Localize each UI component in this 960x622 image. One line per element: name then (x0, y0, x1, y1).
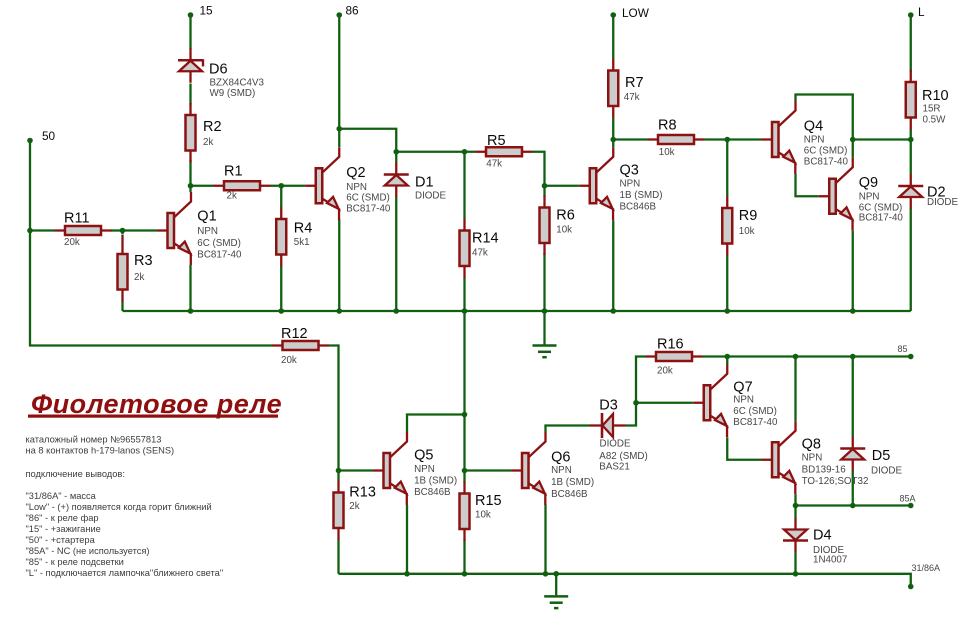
wire 85 line (727, 355, 911, 357)
svg-text:DIODE: DIODE (927, 197, 958, 208)
transistor Q5 (373, 432, 457, 505)
junction rail Q1e (188, 308, 194, 314)
junction R10/D2 (908, 137, 914, 143)
svg-text:"Low" - (+) появляется когда г: "Low" - (+) появляется когда горит ближн… (26, 502, 212, 512)
wire R10 bottom to node (910, 129, 912, 140)
net flag 15 (188, 4, 213, 18)
wire node row to D2 (853, 138, 911, 140)
transistor Q8 (762, 421, 869, 494)
junction rail R4 (278, 308, 284, 314)
net flag 50 (27, 129, 55, 143)
wire Q7 emitter to Q8 base (727, 438, 761, 460)
wire R14 bottom to rail (463, 278, 465, 312)
svg-text:Q9: Q9 (859, 175, 878, 191)
junction 86/Q2 collector (336, 126, 342, 132)
junction R11/R3/Q1 base (120, 228, 126, 234)
svg-text:NPN: NPN (197, 226, 218, 237)
wire node to Q6 base (465, 469, 512, 471)
svg-text:86: 86 (346, 4, 360, 18)
wire 15 to D6 (189, 15, 191, 49)
resistor R9 (722, 196, 757, 256)
svg-text:6C (SMD): 6C (SMD) (197, 238, 241, 249)
svg-text:Q8: Q8 (802, 436, 821, 452)
resistor R5 (476, 133, 533, 169)
svg-text:Q7: Q7 (733, 380, 752, 396)
wire 85A line (796, 504, 911, 506)
ground bottom (544, 574, 568, 608)
transistor Q6 (512, 432, 595, 505)
resistor R1 (214, 164, 271, 202)
svg-text:50: 50 (42, 129, 56, 143)
diode D5 (840, 437, 902, 477)
svg-text:BC846B: BC846B (620, 202, 657, 213)
transistor Q1 (157, 192, 242, 265)
svg-text:R2: R2 (203, 119, 222, 135)
wire D4 to bottom rail (794, 553, 796, 574)
wire Q2 emitter to rail (338, 220, 340, 312)
svg-text:2k: 2k (203, 137, 213, 148)
svg-text:NPN: NPN (620, 179, 641, 190)
svg-text:R11: R11 (64, 211, 90, 227)
svg-text:D5: D5 (872, 448, 891, 464)
svg-text:каталожный номер №96557813: каталожный номер №96557813 (26, 435, 162, 445)
svg-text:BC817-40: BC817-40 (197, 250, 242, 261)
svg-text:20k: 20k (657, 366, 673, 377)
wire 86 vertical (338, 15, 340, 147)
svg-text:31/86A: 31/86A (912, 563, 941, 573)
svg-text:NPN: NPN (414, 464, 435, 475)
svg-text:NPN: NPN (346, 182, 367, 193)
wire Q1 emitter to rail (189, 265, 191, 311)
svg-text:DIODE: DIODE (600, 439, 631, 450)
svg-text:47k: 47k (486, 158, 502, 169)
transistor Q4 (762, 101, 849, 174)
junction Q5 collector/mid rail (462, 412, 468, 418)
junction R1/R4/Q2 base (278, 183, 284, 189)
net flag 86 (336, 4, 359, 18)
wire node to Q9 collector (852, 140, 854, 158)
svg-text:0.5W: 0.5W (923, 115, 947, 126)
wire Q3 emitter to rail (612, 220, 614, 311)
svg-text:NPN: NPN (733, 395, 754, 406)
svg-text:Q3: Q3 (620, 163, 639, 179)
net flag LOW (610, 6, 649, 20)
svg-text:1B (SMD): 1B (SMD) (414, 476, 457, 487)
wire R16 right to node (703, 355, 728, 357)
svg-text:NPN: NPN (551, 465, 572, 476)
svg-text:Q1: Q1 (197, 209, 216, 225)
wire D1 bottom to rail (395, 197, 397, 312)
net flag 31/86A (908, 563, 940, 589)
svg-text:"85" - к реле подсветки: "85" - к реле подсветки (26, 557, 124, 567)
svg-text:1B (SMD): 1B (SMD) (620, 190, 663, 201)
svg-text:R13: R13 (349, 485, 376, 501)
net flag 85A (900, 494, 916, 509)
wire R8 right to node (705, 138, 728, 140)
transistor Q9 (819, 158, 904, 231)
wire LOW to R7 (612, 15, 614, 59)
wire 85A to D4 (794, 506, 796, 519)
svg-text:BC846B: BC846B (551, 489, 588, 500)
junction R14 top (462, 149, 468, 155)
svg-text:BC817-40: BC817-40 (804, 157, 849, 168)
resistor R3 (118, 235, 153, 302)
junction bottom rail Q5e (404, 571, 410, 577)
wire R11 left (30, 229, 55, 231)
svg-text:BC817-40: BC817-40 (733, 417, 778, 428)
resistor R8 (648, 118, 705, 159)
resistor R11 (55, 211, 112, 249)
svg-text:10k: 10k (659, 147, 675, 158)
svg-text:DIODE: DIODE (415, 191, 446, 202)
svg-text:47k: 47k (624, 92, 640, 103)
wire R4 top node down (280, 186, 282, 207)
svg-text:20k: 20k (281, 355, 297, 366)
wire R15 bottom to rail (463, 540, 465, 574)
wire Q1 collector to node (189, 186, 191, 192)
wire Q6 emitter to rail (544, 505, 546, 574)
junction 85/D5 (850, 354, 856, 360)
wire 85 down to Q8 collector (794, 357, 796, 422)
wire D1 top (395, 152, 397, 163)
junction rail Q3e (610, 308, 616, 314)
svg-text:"15" - +зажигание: "15" - +зажигание (26, 524, 101, 534)
resistor R12 (272, 326, 329, 366)
diode D1 (384, 163, 447, 202)
svg-text:D1: D1 (415, 174, 434, 190)
svg-text:"86" - к реле фар: "86" - к реле фар (26, 513, 99, 523)
svg-text:R12: R12 (281, 326, 308, 342)
junction D1 top (393, 149, 399, 155)
wire R9 bottom to rail (726, 255, 728, 311)
wire R4 bottom to rail (280, 266, 282, 311)
wire Q3 collector (612, 140, 614, 148)
svg-text:10k: 10k (556, 225, 572, 236)
net flag 85 (898, 344, 914, 359)
wire bottom rail 31/86A (339, 574, 911, 584)
transistor Q3 (579, 147, 662, 220)
wire ground rail top (123, 310, 911, 312)
resistor R13 (334, 481, 376, 541)
svg-text:20k: 20k (64, 237, 80, 248)
wire R11 right to node (111, 229, 123, 231)
svg-text:"31/86A" - масса: "31/86A" - масса (26, 491, 97, 501)
resistor R6 (540, 196, 575, 256)
wire Q5 emitter to rail (406, 505, 408, 574)
junction rail Q2e (336, 308, 342, 314)
svg-text:R6: R6 (556, 208, 575, 224)
wire R2 to node R1 (189, 160, 191, 186)
svg-text:2k: 2k (349, 501, 359, 512)
svg-text:R14: R14 (472, 231, 499, 247)
svg-text:R15: R15 (475, 493, 502, 509)
svg-text:R4: R4 (294, 221, 313, 237)
wire node to Q4 base (727, 138, 761, 140)
wire node to Q5 base (339, 469, 374, 471)
wire node to R6 top (543, 186, 545, 197)
diode D6 (zener) (178, 48, 265, 99)
transistor Q7 (693, 364, 778, 437)
junction 85A/D5 (850, 503, 856, 509)
diode D4 (783, 518, 847, 566)
junction 85/Q7 collector/R16 (724, 354, 730, 360)
transistor Q2 (305, 147, 391, 220)
wire L to R10 (910, 15, 912, 72)
svg-text:DIODE: DIODE (871, 466, 902, 477)
svg-text:подключение выводов:: подключение выводов: (26, 469, 125, 479)
junction rail R6 (542, 308, 548, 314)
wire R14 top (463, 152, 465, 219)
svg-text:BZX84C4V3: BZX84C4V3 (210, 78, 265, 89)
svg-text:D4: D4 (813, 528, 832, 544)
wire mid vertical rail to Q6 base node (463, 311, 465, 483)
resistor R2 (186, 103, 222, 163)
svg-text:R3: R3 (134, 253, 153, 269)
junction rail R14 (462, 308, 468, 314)
junction rail D1 (393, 308, 399, 314)
title (28, 389, 282, 419)
wire R1 right to Q2 base node (271, 185, 306, 187)
wire R3 bottom to rail (121, 301, 123, 312)
junction bottom rail Q6e (543, 571, 549, 577)
wire 86 branch to D1 top (339, 129, 396, 152)
wire node to R1 left (191, 185, 214, 187)
svg-text:NPN: NPN (804, 134, 825, 145)
svg-text:Q6: Q6 (551, 449, 570, 465)
resistor R10 (906, 70, 949, 130)
svg-text:2k: 2k (134, 272, 144, 283)
wire node down to R9 (726, 140, 728, 197)
junction rail R9 (724, 308, 730, 314)
wire Q4 collector bracket (796, 95, 853, 140)
notes text block (26, 435, 224, 579)
svg-text:5k1: 5k1 (294, 237, 310, 248)
wire Q9 emitter to rail (852, 231, 854, 311)
wire R6 bottom to rail (543, 253, 545, 311)
wire D6 to R2 (189, 84, 191, 105)
junction R8/R9/Q4 base (724, 137, 730, 143)
svg-text:6C (SMD): 6C (SMD) (346, 193, 390, 204)
wire R7 bottom to node (612, 118, 614, 140)
svg-text:R16: R16 (657, 337, 684, 353)
svg-text:"L" - подключается лампочка"бл: "L" - подключается лампочка"ближнего све… (26, 568, 224, 578)
svg-text:R1: R1 (224, 164, 243, 180)
wire D2 bottom to rail (910, 208, 912, 311)
svg-text:"50" - +стартера: "50" - +стартера (26, 535, 96, 545)
svg-text:W9 (SMD): W9 (SMD) (210, 88, 256, 99)
wire Q7 collector (726, 357, 728, 365)
svg-text:R9: R9 (739, 208, 758, 224)
resistor R15 (460, 482, 502, 542)
svg-text:TO-126;SOT32: TO-126;SOT32 (802, 476, 869, 487)
wire 85 down to D5 (852, 357, 854, 437)
svg-text:NPN: NPN (859, 192, 880, 203)
svg-text:15R: 15R (923, 104, 941, 115)
svg-text:2k: 2k (227, 191, 237, 202)
svg-text:10k: 10k (739, 226, 755, 237)
junction R12/R13/Q5 base (336, 468, 342, 474)
svg-text:L: L (918, 5, 925, 19)
net flag L (908, 5, 925, 19)
wire 50 net down and to R12 (30, 141, 272, 346)
svg-text:D3: D3 (599, 398, 618, 414)
wire R13 bottom to rail (337, 540, 339, 574)
junction Q4 collector/Q9 collector (850, 137, 856, 143)
junction 85/Q8 collector (793, 354, 799, 360)
resistor R4 (276, 207, 312, 267)
resistor R14 (460, 219, 499, 279)
svg-text:LOW: LOW (622, 6, 650, 20)
wire Q3 base node to Q3 (545, 185, 580, 187)
diode D2 (898, 174, 958, 209)
svg-text:BC817-40: BC817-40 (346, 203, 391, 214)
svg-text:Q4: Q4 (804, 119, 823, 135)
wire node to R13 top (337, 471, 339, 481)
wire row to R5 left (396, 151, 475, 153)
svg-text:85: 85 (898, 344, 908, 354)
wire node to R3 top (121, 231, 123, 235)
svg-text:47k: 47k (472, 248, 488, 259)
junction rail Q9e (850, 308, 856, 314)
junction mid rail/Q6 base/R15 (462, 468, 468, 474)
junction bottom rail R15 (462, 571, 468, 577)
svg-text:D6: D6 (209, 62, 228, 78)
resistor R7 (608, 59, 643, 119)
wire Q4 emitter to Q9 base (796, 174, 819, 196)
svg-text:"85A" - NC (не используется): "85A" - NC (не используется) (26, 546, 150, 556)
wire R5 right to Q3 base corner (533, 152, 545, 186)
svg-text:R8: R8 (658, 118, 677, 134)
svg-text:85A: 85A (900, 494, 916, 504)
svg-text:1N4007: 1N4007 (813, 555, 847, 566)
junction 50/R11 (27, 228, 33, 234)
svg-text:6C (SMD): 6C (SMD) (733, 406, 777, 417)
svg-text:1B (SMD): 1B (SMD) (551, 477, 594, 488)
resistor R16 (646, 337, 703, 377)
svg-text:6C (SMD): 6C (SMD) (804, 146, 848, 157)
junction R7/R8 (610, 137, 616, 143)
ground top (533, 311, 557, 357)
wire node to Q7 base (636, 402, 693, 404)
wire Q5 collector up and right (407, 415, 465, 433)
svg-text:A82 (SMD): A82 (SMD) (599, 451, 647, 462)
svg-text:BAS21: BAS21 (599, 462, 630, 473)
svg-text:R7: R7 (625, 75, 644, 91)
diode D3 (590, 398, 648, 473)
svg-text:Q5: Q5 (414, 448, 433, 464)
svg-text:15: 15 (200, 4, 214, 18)
wire Q8 emitter to 85A (794, 494, 796, 505)
svg-text:NPN: NPN (802, 453, 823, 464)
junction bottom rail ground (553, 571, 559, 577)
junction R1/R2/Q1 collector (188, 183, 194, 189)
svg-text:BC817-40: BC817-40 (859, 213, 904, 224)
svg-text:BD139-16: BD139-16 (802, 464, 847, 475)
wire Q6 collector up to D3 (546, 426, 590, 433)
junction D3/R16/Q7 base (633, 400, 639, 406)
svg-text:Q2: Q2 (346, 165, 365, 181)
svg-text:BC846B: BC846B (414, 487, 451, 498)
wire D3 right up to node (626, 357, 646, 426)
svg-text:10k: 10k (475, 510, 491, 521)
svg-text:R10: R10 (922, 88, 949, 104)
junction bottom rail D4 (793, 571, 799, 577)
wire R12 right corner down (329, 346, 339, 471)
junction R5/R6/Q3 base (542, 183, 548, 189)
wire node to Q1 base (123, 229, 158, 231)
junction 85A/Q8 emitter/D4 (793, 503, 799, 509)
svg-text:на 8 контактов h-179-lanos (SE: на 8 контактов h-179-lanos (SENS) (26, 446, 175, 456)
wire D5 bottom to 85A (852, 471, 854, 506)
wire D2 top (910, 140, 912, 175)
svg-text:R5: R5 (487, 133, 506, 149)
wire node to R8 left (613, 138, 647, 140)
